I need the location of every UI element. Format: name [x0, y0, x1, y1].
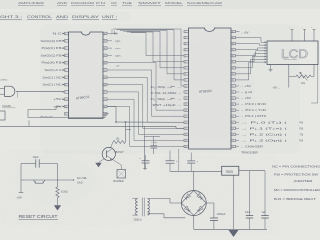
connector stub box at left edge [0, 111, 5, 120]
wire IC2 bottom to power [178, 149, 180, 171]
capacitor C3 10uF reset [21, 163, 36, 165]
buzzer LS1 [117, 170, 126, 179]
op-amp U1 body AT89C51 microcontroller [69, 32, 104, 119]
potentiometer RV1 10k [296, 75, 311, 78]
wire U2 Vcc to +5V [236, 31, 240, 33]
wire reset bottom [21, 179, 73, 181]
ground rail bottom [194, 228, 267, 230]
LCD top pins [291, 30, 293, 42]
wire right branch down [57, 164, 59, 188]
wire bus IC1 to IC2 lower group [107, 63, 184, 110]
LCD left ground stub [270, 65, 272, 70]
capacitor C10 polarized [187, 160, 195, 162]
U2 pin 20 charger trigger label [236, 145, 240, 147]
diode D2 [198, 206, 203, 211]
wire Q1 collector to buzzer [113, 160, 122, 170]
op-amp U3 gate 74LS08 [5, 86, 15, 96]
wire T1 secondary bottom to BR1 [148, 214, 186, 218]
diode D4 [184, 206, 189, 211]
wire gate input B [0, 93, 5, 95]
wire T1 secondary top to BR1 [148, 199, 182, 203]
wire bridge top vertical [193, 171, 195, 190]
U1 pin stubs right [103, 32, 107, 35]
junction vertical from gate output [17, 91, 19, 97]
capacitor C8 10uF [249, 171, 251, 216]
wire stubs near U1 top right [111, 29, 113, 34]
wire gate output to U1 pin 9 [16, 90, 63, 92]
resistor R2 10k base [113, 141, 126, 144]
wire LCD data bus D0-D7 [236, 38, 263, 43]
wire LCD pin to RV1 right [313, 65, 315, 77]
wire LCD VEE down [288, 65, 290, 88]
ground reset [54, 205, 61, 210]
LCD module box [267, 41, 318, 65]
T1 core [141, 198, 143, 217]
wire junction to R2 [125, 122, 127, 142]
wire long net B y122 [116, 121, 184, 123]
resistor R1 8.2k [56, 187, 59, 198]
U2 pin stubs right [231, 30, 236, 32]
wire 7805 ground [233, 175, 235, 229]
capacitor C5 10uF polarized [142, 160, 150, 162]
RV1 wiper arrow [300, 72, 308, 81]
T1 primary top stub [133, 198, 138, 200]
wire Q1 emitter to ground [99, 159, 105, 163]
wire R1 to ground [57, 198, 59, 206]
LCD right edge wire [317, 65, 319, 104]
capacitor C9 1uF [264, 171, 266, 216]
wire U1 pin11 right to net B [107, 107, 116, 123]
capacitor C6 polarized [166, 160, 175, 162]
capacitor C4 30pF [153, 137, 155, 146]
wire bus IC1 to IC2 top group [113, 29, 184, 86]
wire U1 pin-11 step to label [28, 107, 109, 118]
transistor Q1 BC547 [102, 147, 115, 160]
wire +5V branch [20, 180, 22, 193]
U2 right pin labels mid [236, 85, 240, 87]
U2 right pin labels P1 [236, 121, 240, 123]
transformer T1 [136, 199, 138, 202]
T1 primary bottom stub [133, 214, 138, 216]
diode D3 [186, 194, 191, 199]
diode D1 [197, 194, 202, 199]
wire cluster frame [145, 137, 161, 170]
op-amp U2 body AT89S52 microcontroller [189, 28, 232, 149]
U1 pin stubs left [65, 32, 69, 35]
wire BR1 bottom to rail [193, 215, 195, 229]
ground Q1 [95, 163, 102, 168]
wire R2 to Q1 base [111, 142, 114, 148]
regulator U4 7805 [222, 166, 239, 175]
wire 7805 output rail [239, 170, 265, 172]
ground power [229, 230, 239, 237]
U2 pin stubs left [184, 30, 189, 32]
capacitor C7 1000uF [206, 203, 214, 218]
junction tick on net A [28, 120, 30, 126]
wire gate input A [0, 87, 5, 89]
wire long net A y125 [0, 126, 184, 128]
wire 7805 input rail [170, 170, 222, 172]
switch SW1 push button [34, 180, 46, 183]
wire reset left branch [20, 164, 22, 181]
bridge rectifier BR1 [181, 191, 206, 216]
